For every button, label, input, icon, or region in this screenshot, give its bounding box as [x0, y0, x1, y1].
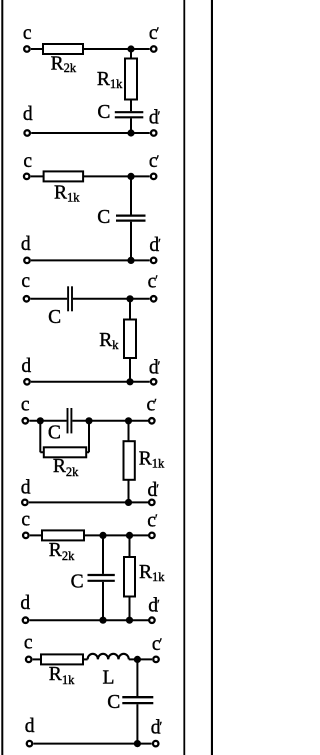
svg-text:d: d — [20, 593, 30, 614]
svg-text:C: C — [48, 422, 61, 443]
svg-text:R2k: R2k — [49, 540, 75, 563]
svg-text:d: d — [21, 477, 31, 498]
svg-text:d: d — [21, 234, 31, 255]
svg-text:R1k: R1k — [97, 69, 123, 91]
svg-text:c′: c′ — [147, 395, 158, 416]
svg-text:R1k: R1k — [49, 664, 75, 687]
svg-text:C: C — [48, 307, 61, 328]
svg-text:d′: d′ — [149, 107, 161, 128]
svg-text:c′: c′ — [148, 271, 159, 292]
svg-text:d: d — [25, 716, 35, 737]
svg-text:c′: c′ — [152, 634, 163, 655]
svg-text:Rk: Rk — [99, 330, 119, 352]
svg-text:d′: d′ — [149, 358, 161, 379]
svg-text:R1k: R1k — [54, 182, 80, 204]
svg-text:C: C — [97, 102, 110, 123]
svg-text:R1k: R1k — [139, 449, 165, 471]
svg-text:c: c — [24, 633, 33, 654]
svg-text:c: c — [21, 395, 30, 416]
svg-text:d′: d′ — [151, 718, 163, 739]
svg-text:R2k: R2k — [51, 53, 77, 75]
svg-text:c′: c′ — [149, 23, 160, 44]
svg-text:c: c — [23, 23, 32, 44]
svg-text:c: c — [23, 151, 32, 172]
svg-text:C: C — [97, 207, 110, 228]
svg-text:d′: d′ — [148, 480, 160, 501]
svg-text:c: c — [21, 510, 30, 531]
svg-text:C: C — [71, 571, 84, 592]
svg-text:d′: d′ — [148, 596, 160, 617]
svg-text:c′: c′ — [149, 151, 160, 172]
svg-text:L: L — [103, 667, 115, 688]
svg-text:d′: d′ — [149, 235, 161, 256]
svg-text:c: c — [21, 271, 30, 292]
svg-text:c′: c′ — [147, 510, 158, 531]
svg-text:R1k: R1k — [139, 562, 165, 584]
svg-text:R2k: R2k — [53, 456, 79, 479]
svg-text:d: d — [21, 356, 31, 377]
svg-text:C: C — [107, 692, 120, 713]
svg-text:d: d — [23, 104, 33, 125]
